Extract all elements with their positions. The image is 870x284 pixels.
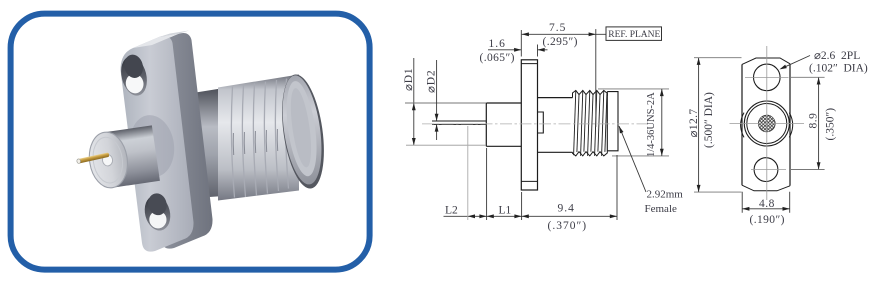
svg-text:(.102″ DIA): (.102″ DIA): [809, 63, 868, 75]
svg-text:(.190″): (.190″): [750, 214, 785, 226]
svg-text:2.92mm: 2.92mm: [647, 189, 684, 201]
svg-text:(.370″): (.370″): [548, 220, 588, 232]
svg-text:1/4-36UNS-2A: 1/4-36UNS-2A: [646, 92, 657, 157]
svg-text:L1: L1: [499, 205, 512, 217]
svg-text:1.6: 1.6: [489, 38, 506, 50]
svg-text:(.350″): (.350″): [825, 108, 837, 141]
svg-text:⌀12.7: ⌀12.7: [688, 108, 700, 137]
svg-text:(.500″ DIA): (.500″ DIA): [703, 92, 715, 148]
svg-text:⌀D2: ⌀D2: [426, 70, 438, 93]
svg-text:8.9: 8.9: [808, 113, 820, 129]
svg-text:⌀D1: ⌀D1: [403, 68, 415, 91]
svg-text:9.4: 9.4: [558, 203, 575, 215]
svg-text:Female: Female: [645, 203, 677, 215]
svg-text:4.8: 4.8: [759, 198, 775, 210]
svg-text:(.295″): (.295″): [543, 36, 578, 48]
svg-text:⌀2.6 2PL: ⌀2.6 2PL: [814, 50, 860, 62]
svg-text:(.065″): (.065″): [480, 52, 515, 64]
svg-text:L2: L2: [445, 205, 458, 217]
svg-text:REF. PLANE: REF. PLANE: [608, 30, 660, 40]
svg-text:7.5: 7.5: [549, 22, 566, 34]
